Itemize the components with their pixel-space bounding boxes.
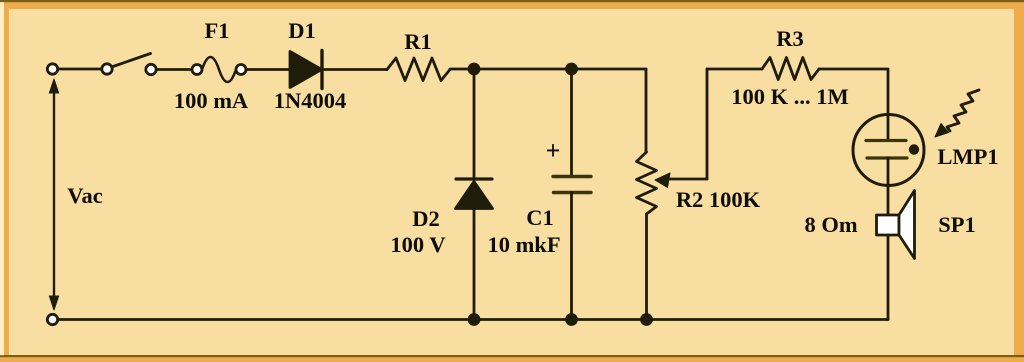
wire D2 branch upper [473, 69, 476, 178]
svg-text:100 mA: 100 mA [174, 88, 249, 113]
squiggle arrowhead [935, 124, 949, 138]
diode D2 triangle [456, 182, 493, 209]
switch blade [113, 54, 151, 67]
bottom junction node R2 [642, 315, 652, 325]
Vac arrow shaft [53, 88, 55, 300]
top dark frame line [0, 0, 1024, 2]
wire [246, 68, 290, 71]
svg-text:Vac: Vac [67, 183, 102, 208]
svg-text:D2: D2 [412, 206, 440, 231]
svg-text:SP1: SP1 [938, 212, 976, 237]
speaker SP1 cone [899, 191, 915, 259]
bottom junction node C1 [567, 315, 577, 325]
bottom junction node D2 [469, 315, 479, 325]
wire wiper vertical [706, 69, 709, 179]
svg-text:100 K ... 1M: 100 K ... 1M [731, 84, 849, 109]
bottom rail wire [58, 318, 888, 321]
svg-text:R2 100K: R2 100K [676, 187, 761, 212]
wire D2 branch lower [473, 209, 476, 320]
diode D2 cathode bar [456, 177, 492, 180]
Vac arrowhead down [49, 296, 58, 310]
svg-text:+: + [546, 136, 561, 165]
resistor R1 zigzag [387, 58, 450, 81]
wire R2 lower [645, 214, 648, 320]
Vac arrowhead up [49, 79, 58, 93]
left pale sliver [0, 2, 4, 355]
svg-text:R3: R3 [776, 26, 804, 51]
svg-text:LMP1: LMP1 [937, 144, 998, 169]
fuse F1 left circle [192, 65, 202, 75]
potentiometer R2 zigzag [637, 152, 657, 214]
svg-text:1N4004: 1N4004 [274, 88, 347, 113]
bottom dark frame line [0, 355, 1024, 357]
lamp top electrode [866, 139, 906, 142]
fuse F1 right circle [236, 65, 246, 75]
switch throw circle [146, 64, 156, 74]
resistor R3 zigzag [762, 58, 819, 80]
junction node at D2 [469, 64, 479, 74]
light squiggle arrow at lamp [947, 90, 979, 131]
speaker SP1 driver square [877, 215, 900, 235]
svg-text:100 V: 100 V [390, 232, 445, 257]
wire wiper horizontal [665, 178, 707, 181]
svg-text:C1: C1 [526, 205, 554, 230]
wire R3 to lamp corner [819, 69, 888, 141]
R2 wiper arrowhead [655, 173, 670, 188]
capacitor C1 bottom plate [554, 191, 592, 194]
wire C1 branch upper [570, 69, 573, 176]
terminal top-left [47, 64, 57, 74]
fuse F1 sine element [202, 57, 236, 82]
capacitor C1 top plate [553, 175, 591, 178]
wire [58, 68, 102, 71]
wire [157, 68, 192, 71]
svg-text:F1: F1 [205, 18, 230, 43]
wire to R3 [707, 68, 762, 71]
lamp gas dot [909, 144, 919, 154]
diode D1 anode triangle [290, 52, 322, 88]
svg-text:10 mkF: 10 mkF [487, 232, 560, 257]
switch pole circle [102, 64, 112, 74]
wire top rail [450, 68, 646, 71]
neon lamp LMP1 envelope [853, 115, 924, 186]
junction node at C1 [567, 64, 577, 74]
wire C1 branch lower [570, 193, 573, 320]
wire lamp bottom to speaker [887, 158, 890, 215]
terminal bottom-left [47, 314, 57, 324]
wire [322, 68, 387, 71]
svg-text:8 Om: 8 Om [804, 212, 857, 237]
wire to R2 top [645, 69, 648, 152]
svg-text:D1: D1 [288, 18, 316, 43]
wire speaker to bottom rail [887, 235, 890, 320]
diode D1 cathode bar [320, 51, 323, 89]
lamp bottom electrode [867, 156, 907, 159]
svg-text:R1: R1 [404, 29, 432, 54]
